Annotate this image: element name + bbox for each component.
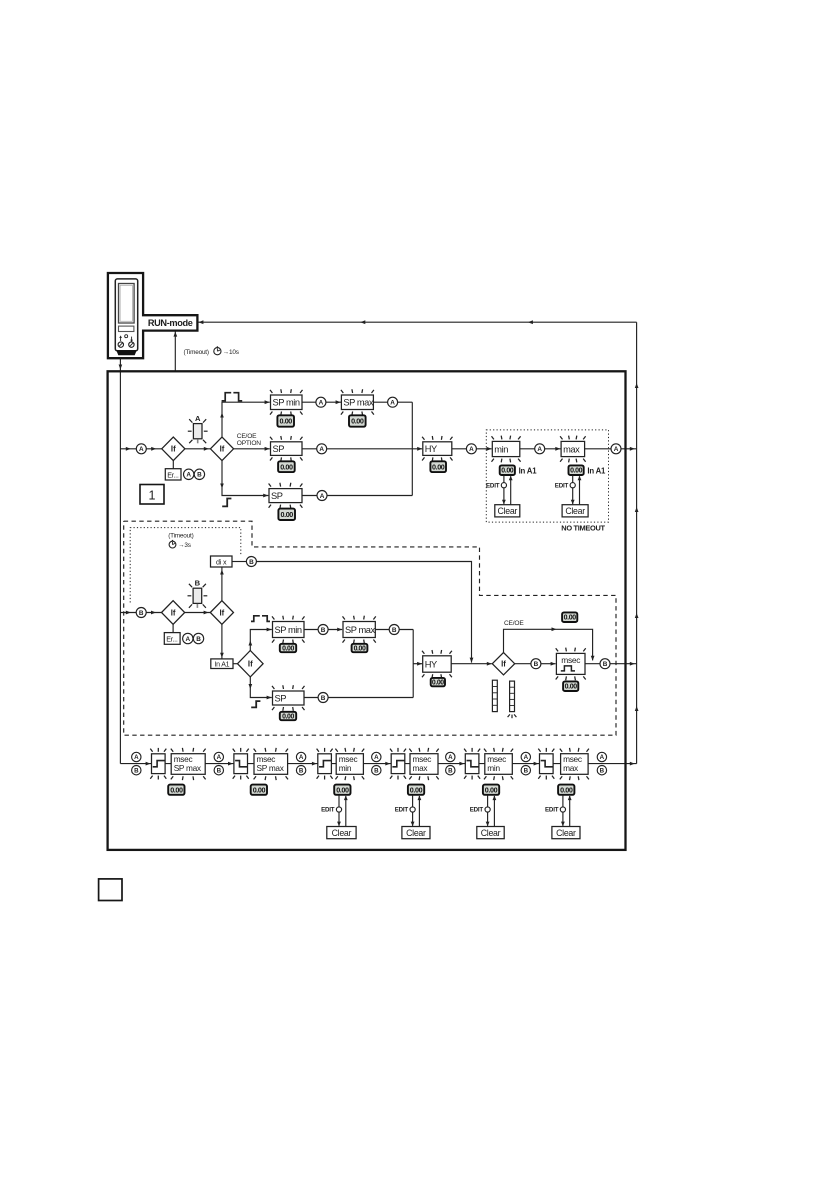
- blink icon A display: [188, 414, 208, 443]
- decision If4 sec2: [238, 651, 264, 677]
- arrow into If2: [204, 447, 209, 451]
- wire merge vertical sec1: [411, 402, 413, 495]
- box Er sec1: [165, 469, 181, 480]
- svg-text:0.00: 0.00: [280, 462, 293, 471]
- edit-clear group min: [486, 476, 520, 517]
- svg-text:B: B: [374, 767, 379, 774]
- wire from device down into main box: [119, 358, 121, 764]
- box msec min bottom 3: [335, 748, 364, 780]
- edit-clear group bottom 4: [395, 795, 430, 838]
- svg-text:CE/OE: CE/OE: [237, 433, 257, 440]
- svg-text:min: min: [487, 763, 500, 773]
- value display bottom 5: [483, 785, 499, 795]
- node B after Er2: [193, 633, 203, 643]
- node B after SP max2: [389, 625, 399, 635]
- node B after SP2: [318, 693, 328, 703]
- box msec min bottom 5: [484, 748, 513, 780]
- wire A row entry: [120, 448, 161, 450]
- svg-text:max: max: [413, 763, 429, 773]
- marker box 1: [140, 485, 164, 505]
- arrow A row to If1: [151, 447, 156, 451]
- arrow into SP min2: [267, 628, 272, 632]
- decision If1 sec1: [162, 437, 185, 461]
- svg-text:di x: di x: [216, 558, 227, 567]
- svg-text:0.00: 0.00: [170, 785, 183, 794]
- arrow If4 up: [249, 641, 253, 646]
- node B after di x: [246, 557, 256, 567]
- svg-text:Er...: Er...: [166, 634, 178, 643]
- node A after SP mid: [317, 444, 327, 454]
- svg-text:A: A: [139, 446, 144, 453]
- box SP max sec1: [341, 389, 374, 415]
- box HY sec2: [422, 650, 452, 678]
- svg-text:EDIT: EDIT: [395, 807, 409, 814]
- arrow CE/OE right: [552, 627, 557, 631]
- svg-text:SP: SP: [273, 444, 285, 454]
- arrow into main box (down): [119, 365, 123, 370]
- value display bottom 1: [168, 785, 184, 795]
- svg-text:B: B: [134, 767, 139, 774]
- svg-text:B: B: [195, 579, 201, 588]
- arrow into If3: [487, 662, 492, 666]
- svg-text:EDIT: EDIT: [321, 807, 335, 814]
- svg-text:0.00: 0.00: [501, 468, 514, 475]
- node A bottom pair 6: [521, 752, 530, 761]
- arrow into HY2: [417, 662, 422, 666]
- wire min to max: [520, 448, 561, 450]
- svg-text:0.00: 0.00: [354, 646, 366, 653]
- node B bottom pair 5: [446, 766, 455, 775]
- svg-text:A: A: [390, 400, 395, 407]
- arrow down into HY2 output line: [470, 658, 474, 663]
- wire If2 up branch: [222, 402, 270, 437]
- wire return line top horizontal: [198, 321, 637, 323]
- wire merge vertical sec2: [412, 630, 414, 698]
- wire If2b up to di x: [221, 567, 223, 601]
- decision If2 sec2: [210, 601, 233, 625]
- svg-text:A: A: [469, 446, 474, 453]
- label Timeout 3s: [168, 532, 193, 549]
- value display SP bottom: [278, 509, 295, 520]
- svg-text:0.00: 0.00: [282, 714, 294, 721]
- wire B row entry: [120, 612, 161, 614]
- box SP mid sec1: [270, 436, 303, 461]
- wire If3 to B node pre-msec: [515, 663, 531, 665]
- box SP min sec2: [272, 616, 305, 644]
- value display bottom 4: [408, 785, 424, 795]
- wire In A1 to If4: [233, 663, 237, 665]
- arrow If4 down: [249, 684, 253, 689]
- svg-text:0.00: 0.00: [351, 417, 364, 426]
- arrow into SP max2: [337, 628, 342, 632]
- box SP sec2: [272, 685, 305, 711]
- arrow into msec: [551, 662, 556, 666]
- svg-text:0.00: 0.00: [282, 646, 294, 653]
- node A after Er2: [183, 633, 193, 643]
- dashed boundary section 2: [124, 521, 616, 735]
- wire If4 up branch: [250, 630, 271, 651]
- value display SP mid: [278, 461, 295, 472]
- svg-text:B: B: [299, 767, 304, 774]
- wire CE/OE bypass: [504, 629, 593, 660]
- svg-text:B: B: [524, 767, 529, 774]
- decision If3 sec2: [492, 653, 514, 675]
- arrow left mid return 2: [528, 320, 533, 324]
- node B input sec2: [136, 608, 146, 618]
- arrow B out to return: [630, 662, 635, 666]
- value display max In A1: [569, 465, 584, 475]
- wire If1 to If2: [185, 448, 210, 450]
- edit-clear group max: [555, 476, 588, 517]
- pulse symbol top branch sec1: [222, 393, 243, 401]
- svg-text:0.00: 0.00: [410, 785, 423, 794]
- value display msec: [563, 681, 578, 691]
- svg-text:max: max: [563, 444, 580, 454]
- box SP max sec2: [343, 616, 376, 644]
- svg-text:1: 1: [149, 488, 156, 502]
- wire If1b to Er2: [172, 624, 174, 632]
- node A after HY: [466, 444, 476, 454]
- wire If2 down branch: [222, 461, 268, 496]
- value display SP max2: [352, 644, 368, 653]
- arrow into max box: [555, 447, 560, 451]
- value display SP2: [280, 712, 296, 721]
- node A after SP max: [388, 397, 398, 407]
- node A after SP bottom: [317, 491, 327, 501]
- svg-text:0.00: 0.00: [280, 417, 293, 426]
- node B bottom pair 3: [296, 766, 305, 775]
- bargraph icon 1: [492, 680, 497, 711]
- svg-text:SP: SP: [271, 491, 283, 501]
- node A bottom pair 4: [372, 752, 381, 761]
- edit-clear group bottom 5: [470, 795, 504, 838]
- main outer box: [108, 371, 626, 850]
- svg-text:SP max: SP max: [174, 763, 202, 773]
- svg-text:NO TIMEOUT: NO TIMEOUT: [561, 524, 605, 533]
- step symbol bottom branch sec1: [222, 499, 231, 507]
- box SP bottom sec1: [269, 483, 303, 509]
- node B after Er1: [194, 469, 204, 479]
- svg-text:B: B: [139, 610, 144, 617]
- svg-text:A: A: [299, 754, 304, 761]
- wire SP min to SP max: [302, 401, 341, 403]
- svg-text:min: min: [339, 763, 352, 773]
- svg-text:In A1: In A1: [519, 467, 538, 476]
- svg-text:A: A: [614, 446, 619, 453]
- label CE/OE OPTION: [237, 433, 262, 447]
- wire return line right vertical: [636, 322, 638, 763]
- arrow into step4: [385, 762, 390, 766]
- svg-text:B: B: [392, 627, 397, 634]
- svg-text:Clear: Clear: [332, 828, 352, 838]
- svg-text:0.00: 0.00: [565, 684, 578, 691]
- svg-text:A: A: [319, 400, 324, 407]
- svg-text:0.00: 0.00: [432, 462, 445, 471]
- svg-text:Clear: Clear: [498, 506, 518, 516]
- svg-text:Er...: Er...: [167, 470, 179, 479]
- svg-text:A: A: [524, 754, 529, 761]
- svg-text:B: B: [249, 559, 254, 566]
- arrow into step6: [534, 762, 539, 766]
- svg-text:SP max: SP max: [343, 398, 373, 408]
- wire If2 to SP mid: [234, 448, 270, 450]
- svg-text:→3s: →3s: [178, 542, 191, 549]
- svg-text:SP: SP: [275, 693, 287, 703]
- svg-text:Clear: Clear: [556, 828, 576, 838]
- dotted timeout box section 2: [130, 528, 241, 603]
- svg-text:A: A: [374, 754, 379, 761]
- arrow bottom out to return: [630, 762, 635, 766]
- svg-text:RUN-mode: RUN-mode: [148, 318, 193, 328]
- arrow A row entry: [126, 447, 131, 451]
- svg-text:OPTION: OPTION: [237, 440, 262, 447]
- value display bottom 3: [334, 785, 350, 795]
- box di x: [211, 556, 233, 567]
- wire If1 to Er1: [172, 461, 174, 469]
- arrow up branch: [220, 413, 224, 418]
- pulse symbol top branch sec2: [251, 616, 270, 622]
- svg-text:(Timeout): (Timeout): [168, 532, 193, 539]
- svg-text:If: If: [220, 608, 225, 617]
- node A bottom pair 3: [296, 752, 305, 761]
- node A bottom pair 5: [446, 752, 455, 761]
- node A bottom pair 1: [132, 752, 141, 761]
- svg-text:A: A: [448, 754, 453, 761]
- svg-text:min: min: [494, 444, 508, 454]
- svg-text:max: max: [563, 763, 579, 773]
- arrow CE/OE down: [591, 656, 595, 661]
- svg-text:0.00: 0.00: [253, 785, 266, 794]
- value display min In A1: [500, 465, 515, 475]
- svg-text:A: A: [195, 414, 201, 423]
- wire RUN-mode vertical connector: [174, 331, 176, 372]
- arrow into SP max: [336, 400, 341, 404]
- svg-text:0.00: 0.00: [570, 468, 583, 475]
- svg-text:A: A: [320, 493, 325, 500]
- node B bottom pair 7: [597, 766, 606, 775]
- label Timeout 10s: [184, 346, 239, 356]
- wire HY2 to If3: [451, 663, 492, 665]
- arrow into SP2 bottom: [267, 696, 272, 700]
- svg-text:SP max: SP max: [257, 763, 285, 773]
- box msec max bottom 6: [560, 748, 589, 780]
- svg-text:SP max: SP max: [345, 625, 375, 635]
- box msec sec2: [556, 648, 586, 681]
- step symbol bottom branch sec2: [251, 701, 260, 707]
- box msec max bottom 4: [409, 748, 438, 780]
- svg-text:B: B: [217, 767, 222, 774]
- step edge icon 2: [233, 748, 249, 780]
- svg-text:0.00: 0.00: [281, 510, 294, 519]
- step edge icon 1: [150, 748, 166, 780]
- step edge icon 6: [538, 748, 554, 780]
- svg-text:B: B: [448, 767, 453, 774]
- wire di x to B node: [232, 561, 246, 563]
- arrow up return 4: [635, 706, 639, 711]
- svg-text:If: If: [220, 445, 225, 454]
- svg-text:B: B: [603, 661, 608, 668]
- box min: [492, 436, 521, 463]
- bargraph icon 2 blinking: [508, 681, 517, 718]
- arrow up return 2: [635, 507, 639, 512]
- node B before msec: [531, 659, 541, 669]
- box In A1: [211, 659, 233, 669]
- wire max to return line: [585, 448, 637, 450]
- arrow up return 3: [635, 613, 639, 618]
- node B after SP min2: [318, 625, 328, 635]
- svg-text:0.00: 0.00: [564, 615, 577, 622]
- arrow A out to return: [630, 447, 635, 451]
- decision If2 sec1: [210, 437, 233, 461]
- node A output sec1: [611, 444, 621, 454]
- edit-clear group bottom 6: [545, 795, 580, 838]
- arrow down into In A1: [220, 653, 224, 658]
- arrow down branch: [220, 484, 224, 489]
- svg-text:A: A: [319, 446, 324, 453]
- svg-text:→10s: →10s: [223, 349, 239, 356]
- node B bottom pair 2: [214, 766, 223, 775]
- dotted NO TIMEOUT box section 1: [486, 430, 608, 522]
- arrow up return 1: [635, 383, 639, 388]
- arrow B row entry: [126, 611, 131, 615]
- wire B node to down corner: [256, 562, 471, 663]
- arrow into If2b: [204, 611, 209, 615]
- node A after Er1: [184, 469, 194, 479]
- node A after SP min: [316, 397, 326, 407]
- svg-text:B: B: [196, 636, 201, 643]
- box SP min sec1: [270, 389, 303, 415]
- wire SP max to merge: [373, 401, 412, 403]
- arrow into step3: [312, 762, 317, 766]
- wire If4 down branch: [250, 677, 271, 698]
- arrow into SP min: [265, 400, 270, 404]
- edit-clear group bottom 3: [321, 795, 356, 838]
- wire SP bottom to merge: [302, 495, 412, 497]
- arrow bottom entry: [146, 762, 151, 766]
- device with display (sensor front view): [108, 273, 197, 358]
- step edge icon 3: [317, 748, 333, 780]
- arrow into SP bottom: [263, 494, 268, 498]
- svg-text:A: A: [537, 446, 542, 453]
- value display SP max: [349, 415, 366, 426]
- box msec SP max bottom 1: [171, 748, 206, 780]
- wire HY to min box: [452, 448, 492, 450]
- value display bottom 2: [251, 785, 267, 795]
- svg-text:A: A: [186, 472, 191, 479]
- svg-text:B: B: [600, 767, 605, 774]
- wire If2b down to In A1: [221, 624, 223, 659]
- svg-text:EDIT: EDIT: [486, 482, 500, 489]
- svg-text:B: B: [321, 695, 326, 702]
- svg-text:A: A: [600, 754, 605, 761]
- box Er sec2: [164, 633, 180, 645]
- node B after msec: [600, 659, 610, 669]
- arrow into HY: [417, 447, 422, 451]
- svg-text:0.00: 0.00: [560, 785, 573, 794]
- svg-text:EDIT: EDIT: [470, 807, 484, 814]
- svg-text:EDIT: EDIT: [545, 807, 559, 814]
- svg-text:Clear: Clear: [565, 506, 585, 516]
- svg-text:SP min: SP min: [275, 625, 302, 635]
- arrow into step5: [459, 762, 464, 766]
- value display CE/OE: [562, 612, 577, 622]
- node B bottom pair 1: [132, 766, 141, 775]
- decision If1 sec2: [162, 601, 185, 625]
- svg-text:A: A: [185, 636, 190, 643]
- arrow into step2: [228, 762, 233, 766]
- svg-text:HY: HY: [425, 444, 437, 454]
- step edge icon 4: [390, 748, 406, 780]
- wire msec to return line: [585, 663, 637, 665]
- wire bottom row: [120, 763, 636, 765]
- svg-text:0.00: 0.00: [432, 680, 444, 687]
- svg-text:msec: msec: [561, 655, 580, 665]
- svg-text:A: A: [134, 754, 139, 761]
- step edge icon 5: [464, 748, 480, 780]
- node A after min: [535, 444, 545, 454]
- svg-text:B: B: [534, 661, 539, 668]
- arrow into min box: [487, 447, 492, 451]
- svg-text:SP min: SP min: [273, 398, 300, 408]
- arrow up into di x: [220, 570, 224, 575]
- wire SP mid to HY: [302, 448, 422, 450]
- svg-text:B: B: [197, 472, 202, 479]
- svg-text:0.00: 0.00: [485, 785, 498, 794]
- node A input sec1: [136, 444, 146, 454]
- svg-text:In A1: In A1: [214, 661, 229, 668]
- node B bottom pair 6: [521, 766, 530, 775]
- value display HY2: [431, 678, 445, 687]
- svg-text:EDIT: EDIT: [555, 482, 569, 489]
- arrow into SP mid: [265, 447, 270, 451]
- arrow B row to If1b: [151, 611, 156, 615]
- blink icon B display: [188, 579, 208, 608]
- svg-text:(Timeout): (Timeout): [184, 349, 209, 356]
- value display SP min: [277, 415, 294, 426]
- svg-text:Clear: Clear: [481, 828, 501, 838]
- wire SP min2 to SP max2: [304, 629, 342, 631]
- value display bottom 6: [558, 785, 574, 795]
- svg-text:If: If: [171, 445, 176, 454]
- svg-text:If: If: [501, 660, 506, 669]
- svg-text:If: If: [248, 660, 253, 669]
- value display HY: [430, 461, 446, 472]
- node A bottom pair 7: [597, 752, 606, 761]
- box HY sec1: [422, 436, 452, 461]
- svg-text:If: If: [171, 608, 176, 617]
- footnote marker box: [99, 879, 122, 901]
- wire merge2 to HY2: [413, 663, 422, 665]
- svg-text:Clear: Clear: [406, 828, 426, 838]
- arrow left mid return 1: [360, 320, 365, 324]
- box msec SP max bottom 2: [254, 748, 288, 780]
- wire SP2 bottom to merge2: [304, 697, 413, 699]
- svg-text:In A1: In A1: [587, 467, 606, 476]
- svg-text:0.00: 0.00: [336, 785, 349, 794]
- wire If1b to If2b: [185, 612, 211, 614]
- value display SP min2: [280, 644, 296, 653]
- wire SP max2 to merge2: [375, 629, 413, 631]
- node B bottom pair 4: [372, 766, 381, 775]
- arrow left into RUN-mode: [198, 320, 203, 324]
- svg-text:B: B: [321, 627, 326, 634]
- svg-text:CE/OE: CE/OE: [504, 620, 524, 627]
- arrow up into RUN-mode: [174, 332, 178, 337]
- box max: [560, 436, 586, 463]
- svg-text:HY: HY: [425, 659, 437, 669]
- svg-text:A: A: [217, 754, 222, 761]
- node A bottom pair 2: [214, 752, 223, 761]
